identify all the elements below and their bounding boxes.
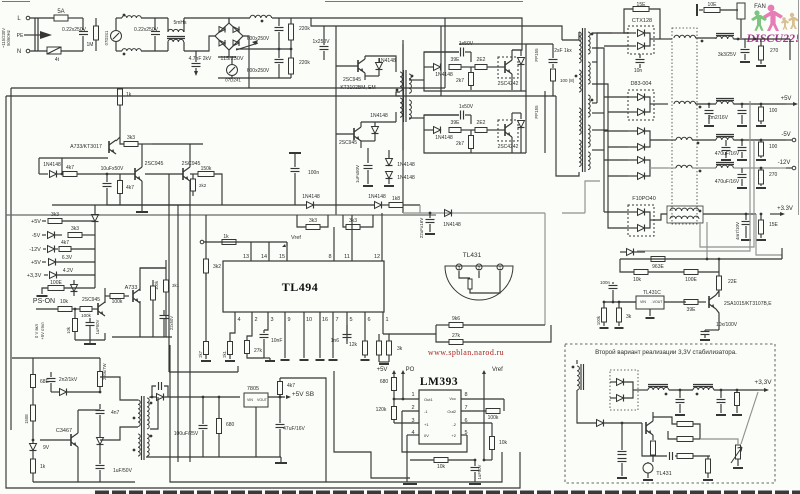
svg-text:-12V: -12V bbox=[29, 247, 41, 253]
svg-text:TL431: TL431 bbox=[656, 471, 672, 477]
main transformer T1 bbox=[575, 28, 594, 172]
capacitor 47uF/16V bbox=[276, 396, 306, 457]
svg-text:100: 100 bbox=[769, 144, 778, 150]
zener 9V bbox=[30, 439, 50, 458]
label q3 type bbox=[340, 77, 375, 91]
wire sec bus 3 bbox=[592, 84, 608, 226]
svg-text:13: 13 bbox=[243, 254, 249, 260]
resistor 100k reg bbox=[596, 301, 609, 328]
svg-text:4n7: 4n7 bbox=[111, 410, 120, 416]
variant transistor Q12 bbox=[646, 412, 653, 440]
resistor 100 -5 bbox=[756, 139, 778, 160]
svg-text:-12V: -12V bbox=[778, 160, 791, 166]
wire bridge plus bbox=[229, 18, 250, 23]
label +3.3V s bbox=[27, 273, 48, 279]
diode 4.2V bbox=[50, 268, 96, 279]
svg-text:100 (8): 100 (8) bbox=[560, 78, 575, 83]
wire sense +5 bus bbox=[637, 101, 754, 251]
svg-text:1: 1 bbox=[385, 317, 388, 323]
resistor 2k1 under bbox=[222, 312, 235, 361]
wire t3 pri bbox=[100, 377, 138, 440]
svg-text:3: 3 bbox=[270, 317, 273, 323]
variant pot bbox=[731, 445, 743, 468]
wire snubber top bbox=[526, 43, 553, 45]
wire sb gnd bbox=[33, 456, 135, 482]
svg-text:2m2/16V: 2m2/16V bbox=[708, 115, 729, 121]
svg-text:+1: +1 bbox=[424, 422, 429, 427]
variant res right bbox=[703, 456, 713, 480]
svg-text:14: 14 bbox=[261, 254, 267, 260]
label mains rating bbox=[1, 28, 11, 48]
svg-text:5: 5 bbox=[349, 317, 352, 323]
svg-text:100: 100 bbox=[769, 108, 778, 114]
logo figure pink bbox=[763, 5, 783, 31]
svg-text:2k7: 2k7 bbox=[456, 141, 464, 147]
coil out1 toroid bbox=[674, 35, 716, 42]
wire var to coil bbox=[633, 389, 648, 391]
LM393 pin labels bbox=[411, 392, 467, 438]
LM393 pin wires bbox=[394, 399, 504, 435]
wire bridge minus drop bbox=[243, 36, 249, 88]
svg-text:2k7: 2k7 bbox=[456, 78, 464, 84]
driver transformer T2 bbox=[396, 70, 414, 122]
wire sense drop bbox=[94, 275, 96, 288]
svg-text:TL494: TL494 bbox=[282, 280, 319, 294]
svg-text:PO: PO bbox=[406, 367, 415, 373]
wire lm loop pin2 bbox=[402, 411, 467, 452]
label +5V lm bbox=[377, 367, 396, 378]
resistor 12k bbox=[349, 341, 370, 360]
connector FAN bbox=[737, 3, 766, 19]
coil +5V rod bbox=[716, 99, 786, 105]
svg-text:27k: 27k bbox=[254, 348, 263, 354]
resistor 100k lm bbox=[480, 399, 504, 421]
diode sec sb bbox=[151, 394, 240, 401]
svg-text:A733/KT3017: A733/KT3017 bbox=[70, 144, 102, 150]
svg-text:Out2: Out2 bbox=[447, 409, 456, 414]
resistor 22E bbox=[717, 258, 738, 297]
wire pin1 net bbox=[389, 333, 436, 335]
svg-text:4k7: 4k7 bbox=[66, 165, 74, 171]
svg-text:2SC945: 2SC945 bbox=[182, 161, 201, 167]
wire cell1 frame bbox=[403, 44, 522, 150]
junction out1 bbox=[737, 38, 757, 41]
capacitor CY 4.7nF 2kV bbox=[189, 51, 212, 76]
wire B+ rail bbox=[11, 87, 445, 89]
svg-text:12k: 12k bbox=[349, 342, 358, 348]
transistor Q10 2SC945 bbox=[145, 144, 200, 366]
resistor 150E sb bbox=[24, 400, 36, 440]
label PO lm bbox=[401, 367, 415, 378]
resistor 2k7 c2 bbox=[456, 130, 474, 153]
resistor 3k a bbox=[377, 334, 382, 362]
logo DISCU22 text bbox=[745, 31, 799, 45]
capacitor 4m7/10V bbox=[735, 213, 751, 240]
svg-text:1N4148: 1N4148 bbox=[397, 175, 415, 181]
variant cap fb bbox=[642, 423, 677, 460]
wire var fb right bbox=[741, 392, 758, 444]
svg-text:1uF50V: 1uF50V bbox=[477, 464, 482, 479]
ground tl431c bbox=[646, 317, 655, 319]
svg-text:22uFx16V: 22uFx16V bbox=[419, 218, 424, 239]
svg-text:680: 680 bbox=[380, 379, 389, 385]
wire vert x441 bbox=[440, 26, 442, 96]
wire sb loop right2 bbox=[334, 371, 410, 478]
svg-text:1k: 1k bbox=[223, 234, 229, 240]
capacitor 100uF/25V bbox=[174, 396, 208, 457]
svg-text:LM393: LM393 bbox=[420, 376, 458, 388]
svg-text:www.spblan.narod.ru: www.spblan.narod.ru bbox=[428, 348, 504, 357]
wire T2 links bbox=[396, 80, 424, 122]
coil -5V toroid bbox=[668, 137, 716, 144]
transistor Q3 2SC945 bbox=[336, 56, 396, 80]
resistor 100E s bbox=[37, 280, 96, 296]
capacitor CX1 0.22x250V bbox=[62, 18, 88, 51]
svg-text:4.7nF 2kV: 4.7nF 2kV bbox=[189, 56, 212, 62]
svg-text:15E: 15E bbox=[769, 222, 779, 228]
resistor 3k3 s2 bbox=[68, 226, 95, 238]
svg-text:5mHs: 5mHs bbox=[173, 20, 187, 26]
capacitor CX2 0.22x250V bbox=[134, 18, 160, 51]
resistor 120k lm bbox=[376, 398, 397, 423]
diode D12 damper bbox=[518, 50, 525, 91]
wire sb loop right bbox=[280, 378, 326, 482]
resistor 2E2 c1 bbox=[461, 57, 497, 70]
svg-text:22E: 22E bbox=[728, 279, 738, 285]
svg-text:2SC945: 2SC945 bbox=[82, 297, 100, 303]
svg-text:1N4148: 1N4148 bbox=[368, 194, 386, 200]
wire aux c bbox=[116, 137, 120, 141]
wire L in bbox=[30, 17, 54, 19]
wire fb corner bbox=[403, 40, 420, 213]
label url bbox=[428, 348, 504, 357]
choke L1 top winding bbox=[116, 16, 168, 18]
terminal +3.3V bbox=[770, 206, 793, 216]
resistor 39E bbox=[684, 300, 706, 314]
capacitor 470uF/16V c bbox=[715, 168, 747, 188]
diode sb2 bbox=[97, 424, 104, 460]
svg-text:+5V: +5V bbox=[31, 260, 41, 266]
wire out1 right bbox=[789, 39, 791, 60]
transistor Q8 A733 bbox=[109, 140, 116, 154]
terminal +5V bbox=[781, 96, 798, 106]
svg-text:1k: 1k bbox=[126, 92, 132, 98]
wire vref rail bbox=[200, 240, 287, 244]
resistor 2k2 tl bbox=[191, 174, 207, 196]
scan edge right bbox=[798, 0, 800, 215]
diode -5v bbox=[48, 232, 63, 239]
label FP155 c2 bbox=[534, 105, 539, 119]
svg-text:D83-004: D83-004 bbox=[630, 81, 651, 87]
svg-text:120k: 120k bbox=[376, 407, 387, 413]
thermistor NTC bbox=[47, 47, 83, 63]
label A733/KT3017 bbox=[70, 144, 102, 150]
label +5V s2 bbox=[31, 260, 46, 266]
capacitor 1x50V c2 bbox=[424, 104, 474, 124]
resistor 3k b bbox=[379, 334, 403, 364]
svg-text:2SC945: 2SC945 bbox=[339, 140, 357, 146]
svg-text:1N4148: 1N4148 bbox=[302, 194, 320, 200]
svg-text:07D241: 07D241 bbox=[104, 30, 109, 45]
svg-text:2SC4242: 2SC4242 bbox=[498, 81, 519, 87]
diode D18 1N4148 bbox=[39, 162, 62, 178]
svg-text:50/60Hz: 50/60Hz bbox=[6, 30, 11, 46]
capacitor 470uF/16V b bbox=[737, 139, 747, 160]
svg-text:3k3: 3k3 bbox=[309, 218, 317, 224]
svg-text:8: 8 bbox=[464, 392, 467, 398]
svg-text:15E: 15E bbox=[637, 2, 647, 8]
wire aux frame bbox=[39, 144, 203, 174]
svg-text:1k8: 1k8 bbox=[392, 196, 400, 202]
resistor 1k vref bbox=[222, 234, 236, 245]
capacitor 1uF50V lm bbox=[469, 459, 482, 484]
svg-text:FAN: FAN bbox=[754, 4, 766, 10]
switch 115/230V bbox=[218, 40, 258, 62]
svg-text:Out1: Out1 bbox=[424, 397, 433, 402]
diode D8 1N4148 bbox=[361, 113, 388, 141]
svg-text:22x50V: 22x50V bbox=[169, 316, 174, 330]
coil +5V toroid bbox=[674, 101, 716, 108]
diode D16 1N4148 bbox=[368, 194, 389, 209]
diode D14 damper bbox=[518, 113, 525, 153]
variant res top bbox=[653, 417, 700, 439]
svg-text:1x50V: 1x50V bbox=[459, 104, 474, 110]
capacitor 2sF 1kx bbox=[549, 44, 573, 68]
svg-text:Vref: Vref bbox=[492, 367, 503, 373]
wire sec stubs bbox=[592, 33, 628, 228]
svg-text:2: 2 bbox=[411, 405, 414, 411]
svg-text:2k7: 2k7 bbox=[198, 350, 203, 357]
ground aux bbox=[107, 196, 190, 212]
capacitor 10nF bbox=[260, 312, 283, 361]
svg-text:1N4148: 1N4148 bbox=[397, 162, 415, 168]
resistor 39E c1 bbox=[449, 57, 461, 70]
svg-text:DISCU22!: DISCU22! bbox=[745, 31, 799, 45]
svg-text:1N4148: 1N4148 bbox=[435, 135, 453, 141]
svg-text:FP155: FP155 bbox=[534, 105, 539, 119]
TL431 internal bbox=[459, 271, 500, 293]
diode D15 1N4148 bbox=[302, 194, 374, 209]
svg-text:9: 9 bbox=[287, 317, 290, 323]
diode D17 1N4148 bbox=[443, 210, 461, 229]
variant res fb bbox=[677, 454, 710, 459]
variant rect box bbox=[610, 370, 638, 410]
resistor 1k8 bbox=[389, 196, 420, 208]
resistor 1k aux bbox=[118, 88, 132, 112]
svg-text:4k7: 4k7 bbox=[61, 240, 69, 246]
transistor Q1 2SC4242 bbox=[497, 50, 519, 90]
capacitor 2m2/16V b bbox=[708, 103, 747, 126]
capacitor 1uF50V ps bbox=[86, 318, 101, 340]
svg-text:100k: 100k bbox=[81, 313, 92, 318]
capacitor 1x250V bbox=[313, 26, 331, 60]
svg-text:+3,3V: +3,3V bbox=[754, 379, 772, 386]
inductor L3 bbox=[250, 15, 291, 22]
svg-text:100n: 100n bbox=[600, 280, 611, 285]
resistor 220k/7W bbox=[98, 358, 108, 392]
svg-text:1M: 1M bbox=[87, 42, 94, 48]
svg-text:-5V: -5V bbox=[32, 233, 41, 239]
svg-text:3k: 3k bbox=[626, 314, 632, 320]
svg-text:270: 270 bbox=[769, 172, 778, 178]
fuse F1 5A bbox=[54, 9, 83, 21]
svg-text:Vcc: Vcc bbox=[449, 396, 456, 401]
label q4 type bbox=[339, 140, 357, 146]
svg-text:+3.3V: +3.3V bbox=[777, 206, 793, 212]
diode -12v bbox=[48, 246, 59, 253]
svg-text:10uFx50V: 10uFx50V bbox=[101, 166, 124, 172]
wire d83 out2 bbox=[650, 167, 668, 169]
svg-text:7805: 7805 bbox=[247, 386, 259, 392]
terminal PE bbox=[17, 31, 52, 39]
resistor 680 sb bbox=[217, 396, 235, 457]
svg-text:A733: A733 bbox=[125, 285, 138, 291]
svg-text:-2: -2 bbox=[452, 422, 456, 427]
label on-off note bbox=[34, 322, 45, 340]
toroid box bbox=[672, 28, 697, 224]
resistor 4k7 aux2 bbox=[118, 174, 135, 205]
svg-text:1k: 1k bbox=[40, 464, 46, 470]
terminal L bbox=[17, 16, 29, 22]
svg-text:10nF: 10nF bbox=[271, 338, 282, 344]
wire mid connect a bbox=[140, 267, 166, 269]
svg-text:4.2V: 4.2V bbox=[63, 268, 74, 274]
capacitor 22x50V bbox=[160, 310, 175, 337]
svg-text:+2: +2 bbox=[451, 433, 456, 438]
diode D13 1N4148 bbox=[424, 127, 453, 142]
wire po drop bbox=[402, 378, 405, 400]
svg-text:9k6: 9k6 bbox=[452, 316, 460, 322]
resistor 10k lm h bbox=[410, 458, 475, 471]
inductor 3V3 dual bbox=[655, 206, 756, 223]
wire primary bottom bbox=[556, 96, 579, 176]
wire c1 bottom bbox=[424, 67, 526, 91]
wire -12V from d83 bbox=[668, 167, 676, 169]
resistor 10k ps2 bbox=[66, 309, 78, 340]
resistor 4k7 aux bbox=[61, 165, 100, 177]
svg-text:3k3: 3k3 bbox=[127, 135, 135, 141]
svg-text:1uFx50V: 1uFx50V bbox=[355, 165, 360, 183]
resistor 3k3 s1 bbox=[48, 212, 95, 224]
resistor 3k3 loop1 bbox=[297, 215, 328, 230]
svg-text:16: 16 bbox=[322, 317, 328, 323]
svg-text:2E2: 2E2 bbox=[477, 120, 486, 126]
svg-text:10k: 10k bbox=[60, 299, 69, 305]
wire q5 e bbox=[716, 309, 719, 330]
svg-text:+5V: +5V bbox=[781, 96, 792, 102]
wire sec bus 1 bbox=[592, 33, 612, 103]
label PS-ON bbox=[33, 298, 55, 305]
svg-text:4: 4 bbox=[237, 317, 240, 323]
svg-text:3k3/25V: 3k3/25V bbox=[718, 52, 737, 58]
svg-text:3k3: 3k3 bbox=[71, 226, 79, 232]
varistor 07D241 b bbox=[218, 57, 291, 83]
svg-text:10x/100V: 10x/100V bbox=[716, 322, 738, 328]
capacitor 10n bbox=[634, 54, 645, 74]
svg-text:15: 15 bbox=[279, 254, 285, 260]
wire net fb1 bbox=[52, 204, 306, 206]
node PE bars bbox=[35, 18, 38, 51]
svg-text:2SC945: 2SC945 bbox=[145, 161, 164, 167]
resistor 15E bbox=[624, 2, 660, 39]
svg-text:KT3102BM, EM: KT3102BM, EM bbox=[340, 85, 375, 91]
resistor 270 -12 bbox=[756, 167, 778, 188]
wire bottom sb rail bbox=[12, 357, 100, 359]
transistor Q11 C3467 bbox=[40, 410, 78, 456]
wire sec bus 2 bbox=[592, 48, 604, 212]
varistor 07D241 bbox=[104, 18, 122, 51]
resistor 27k sup bbox=[436, 325, 551, 345]
wire vert x445 bbox=[444, 18, 446, 88]
resistor 3k1 v bbox=[164, 260, 180, 337]
resistor 100E bbox=[684, 270, 719, 284]
transistor Q2 2SC4242 bbox=[497, 113, 519, 153]
rectifier diodes -5/-12 bbox=[628, 128, 650, 180]
svg-text:2SC945: 2SC945 bbox=[343, 77, 361, 83]
wire cell2 frame bbox=[424, 115, 459, 130]
svg-text:47uF/16V: 47uF/16V bbox=[283, 426, 305, 432]
capacitor 1n6 bbox=[331, 325, 352, 344]
ground psen bbox=[75, 333, 105, 344]
variant coil2 bbox=[693, 385, 758, 396]
svg-text:100k: 100k bbox=[112, 299, 123, 305]
transistor Q6 2SC945 bbox=[82, 297, 105, 316]
wire var pri bbox=[576, 360, 578, 364]
svg-text:11: 11 bbox=[344, 254, 350, 260]
capacitor 470uF/16V a bbox=[715, 140, 740, 160]
diode D11 1N4148 bbox=[424, 64, 453, 79]
wire c2 bottom bbox=[424, 130, 526, 153]
svg-text:100n: 100n bbox=[308, 170, 319, 176]
svg-text:-VOUT: -VOUT bbox=[651, 300, 663, 304]
capacitor 100n bbox=[289, 153, 319, 205]
svg-text:270: 270 bbox=[770, 48, 779, 54]
wire vref lm bbox=[482, 367, 503, 461]
variant res mid bbox=[668, 431, 700, 442]
resistor 27k under bbox=[245, 312, 265, 358]
resistor 100 +5 bbox=[756, 103, 778, 126]
resistor 100k v bbox=[151, 280, 160, 337]
resistor 10k lm v bbox=[490, 423, 508, 460]
svg-text:TL431: TL431 bbox=[463, 252, 482, 259]
capacitor 2n2/1kV bbox=[47, 372, 78, 392]
capacitor 1x50V c1 bbox=[424, 41, 474, 62]
svg-text:2SA1015/KT3107B,E: 2SA1015/KT3107B,E bbox=[724, 301, 772, 307]
svg-text:100E: 100E bbox=[685, 277, 697, 283]
diode pair up bbox=[92, 205, 99, 275]
transistor Q4 2SC945 bbox=[336, 122, 396, 148]
wire reg left bbox=[604, 301, 636, 304]
svg-text:6: 6 bbox=[367, 317, 370, 323]
bridge rectifier BR1 bbox=[215, 23, 243, 50]
resistor 39E c2 bbox=[449, 120, 461, 133]
svg-text:3k3: 3k3 bbox=[51, 212, 59, 218]
resistor 4k7 s bbox=[59, 240, 95, 252]
svg-text:220k: 220k bbox=[299, 26, 310, 32]
label Vref tl bbox=[282, 235, 301, 247]
svg-text:C3467: C3467 bbox=[56, 428, 72, 434]
diode var bbox=[577, 390, 642, 427]
capacitor 100n reg bbox=[600, 280, 618, 302]
label +3.3V var bbox=[754, 379, 772, 392]
wire bottom loop inner bbox=[170, 345, 502, 482]
capacitor C6 600x250V bbox=[247, 49, 284, 78]
variant TL431 bbox=[643, 462, 672, 480]
TL494 ground row bbox=[281, 359, 338, 361]
diode reg bbox=[620, 249, 645, 256]
svg-text:1N4148: 1N4148 bbox=[378, 58, 396, 64]
svg-text:2: 2 bbox=[254, 317, 257, 323]
